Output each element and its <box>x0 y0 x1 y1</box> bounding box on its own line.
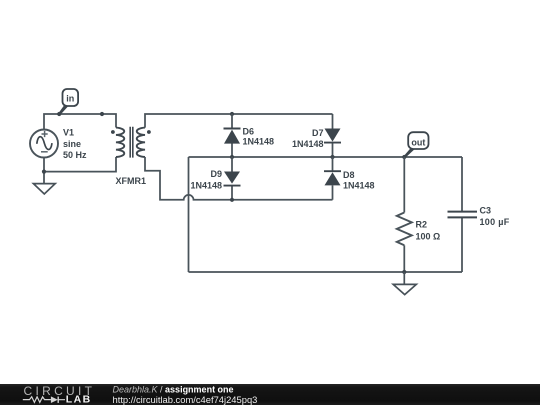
resistor R2 <box>397 157 412 272</box>
svg-text:R2: R2 <box>416 219 428 229</box>
svg-text:LAB: LAB <box>66 394 92 405</box>
node dot D6 top <box>230 112 234 116</box>
svg-text:1N4148: 1N4148 <box>292 139 324 149</box>
diode D8 leads <box>332 157 334 200</box>
D6 labels <box>243 127 275 147</box>
ground (output) <box>393 272 416 295</box>
wire: middle rail <box>189 156 463 158</box>
V1 value labels <box>63 128 87 161</box>
wire: bottom long rail <box>189 271 463 273</box>
svg-text:http://circuitlab.com/c4ef74j2: http://circuitlab.com/c4ef74j245pq3 <box>113 394 258 405</box>
diode D6 leads <box>231 114 233 157</box>
D8 labels <box>343 170 375 191</box>
node dot D6/D9 middle <box>230 155 234 159</box>
wire: XFMR1 secondary bottom to bridge bottom rail (with hop) <box>145 157 333 200</box>
diode D6 <box>224 129 241 144</box>
node dot at XFMR1 primary top terminal <box>100 112 104 116</box>
voltage source V1 <box>30 130 58 158</box>
node dot D7/D8 middle <box>330 155 334 159</box>
XFMR1 phase dot right <box>147 130 151 134</box>
wire: middle rail vertical drop at x=188.5 <box>188 157 190 272</box>
svg-text:1N4148: 1N4148 <box>190 180 222 190</box>
wire: V1 bottom / XFMR1 primary bottom <box>44 157 116 183</box>
svg-text:D7: D7 <box>312 128 324 138</box>
diode D9 leads <box>231 157 233 200</box>
node dot at in-flag connection <box>57 112 61 116</box>
svg-text:100 µF: 100 µF <box>480 217 510 227</box>
XFMR1 phase dot left <box>111 130 115 134</box>
svg-text:C3: C3 <box>480 206 492 216</box>
svg-text:D9: D9 <box>210 169 222 179</box>
wire: V1 top lead to XFMR1 primary top <box>44 114 116 129</box>
transformer XFMR1 <box>116 127 145 158</box>
svg-text:sine: sine <box>63 139 81 149</box>
svg-text:V1: V1 <box>63 128 74 138</box>
diode D7 <box>324 129 341 143</box>
diode D8 <box>324 171 341 185</box>
D9 labels <box>190 169 222 190</box>
svg-text:1N4148: 1N4148 <box>243 137 275 147</box>
flag out <box>404 132 429 158</box>
svg-text:in: in <box>66 94 74 104</box>
C3 labels <box>480 206 510 227</box>
footer bar <box>0 384 540 405</box>
wire: XFMR1 secondary top to bridge top rail <box>145 114 333 128</box>
flag in <box>58 89 78 115</box>
R2 labels <box>416 219 441 241</box>
svg-text:XFMR1: XFMR1 <box>116 176 147 186</box>
svg-text:out: out <box>411 137 425 147</box>
ground (V1) <box>33 184 55 194</box>
footer logo resistor-diode symbol <box>23 397 65 403</box>
diode D9 <box>224 172 241 186</box>
node dot out <box>402 155 406 159</box>
node dot R2 bottom <box>402 270 406 274</box>
svg-text:100 Ω: 100 Ω <box>416 231 441 241</box>
svg-text:D6: D6 <box>243 127 255 137</box>
node dot D9 bottom <box>230 198 234 202</box>
svg-text:50 Hz: 50 Hz <box>63 150 87 160</box>
D7 labels <box>292 128 324 149</box>
svg-text:1N4148: 1N4148 <box>343 181 375 191</box>
capacitor C3 leads <box>461 157 463 272</box>
svg-text:D8: D8 <box>343 170 355 180</box>
diode D7 leads <box>332 114 334 157</box>
capacitor C3 <box>448 212 478 218</box>
node dot V1 bottom junction <box>42 170 46 174</box>
